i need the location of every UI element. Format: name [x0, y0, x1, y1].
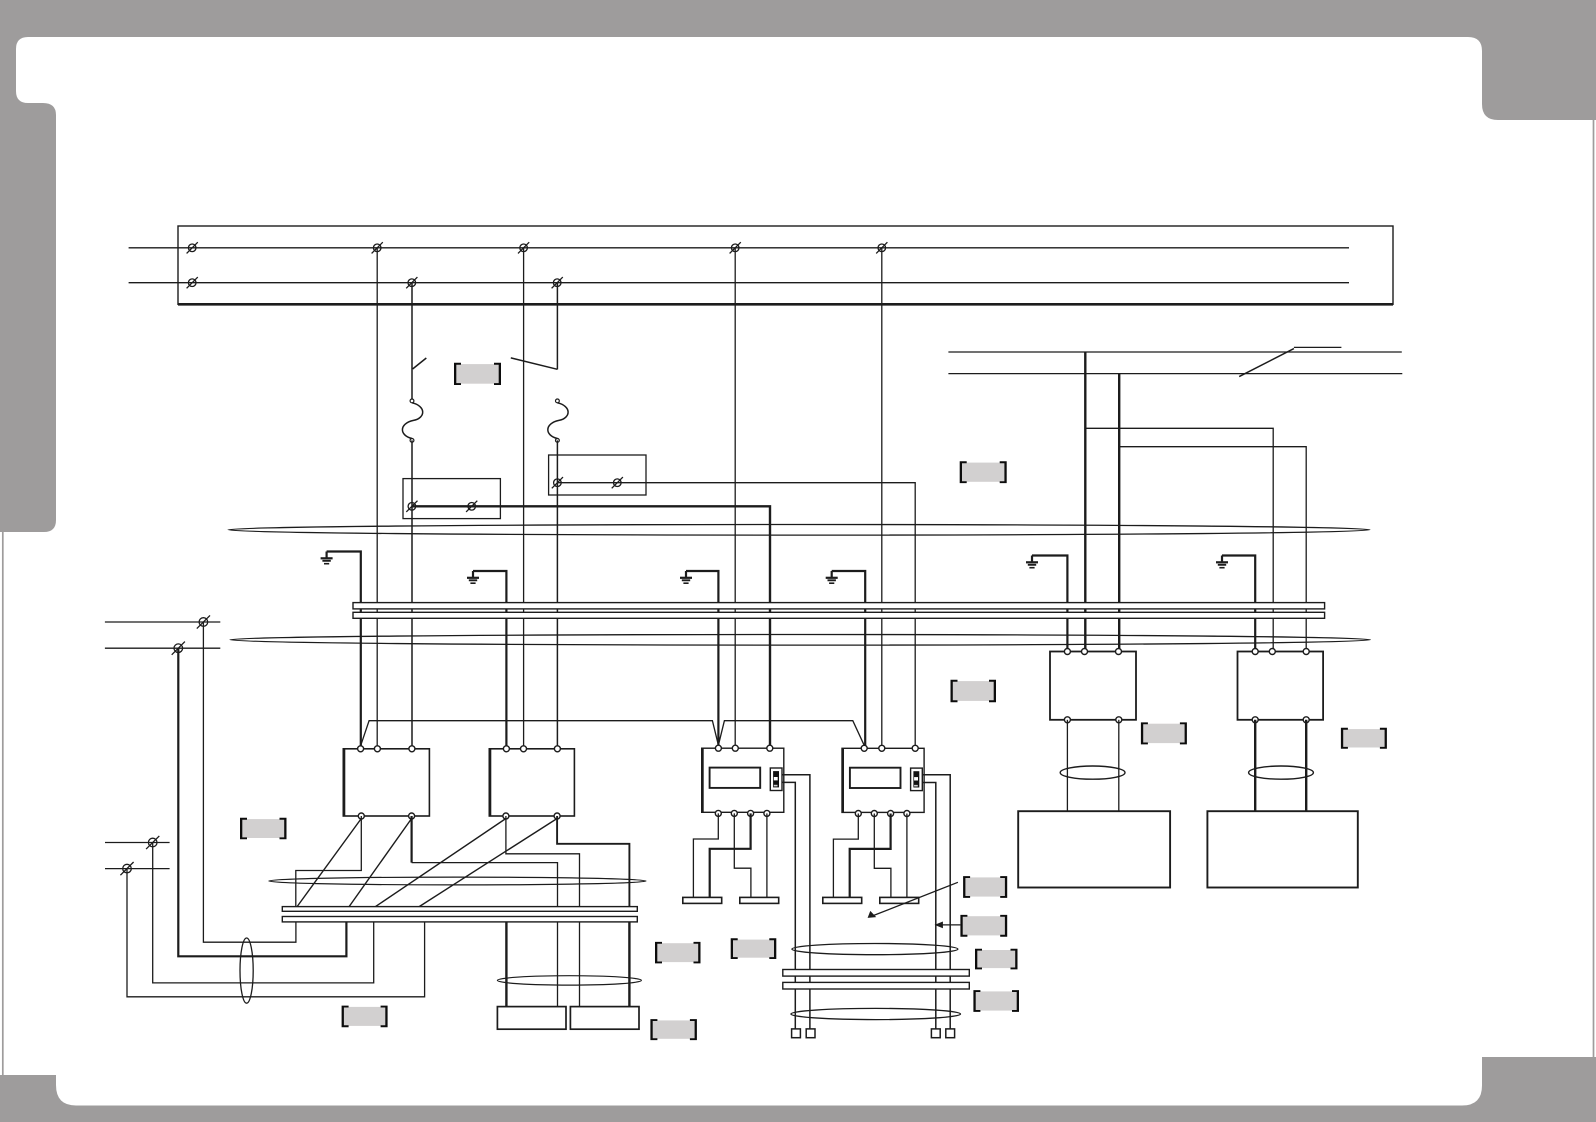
contactor K1 terminals bottom — [358, 813, 364, 819]
output jog K2b — [557, 816, 629, 907]
fuse F1 — [402, 399, 422, 442]
label callout 11 — [731, 938, 777, 959]
module A2 body — [842, 748, 924, 812]
annotation arrow 1 — [868, 882, 958, 918]
heavy feed wire CB1 to module A1 — [412, 506, 770, 748]
feeder wire to contactor K2 coil — [523, 248, 525, 749]
switch blade S3 — [1239, 349, 1294, 377]
ground G3 — [680, 571, 692, 583]
transformer T2 coil — [1249, 766, 1314, 779]
ground wire G4 to module A2 — [832, 571, 866, 748]
breaker box CB2 — [549, 455, 646, 495]
lower bus bar 1 — [282, 907, 637, 912]
module bus bar 1 — [783, 970, 970, 977]
phase tap symbols row2 — [187, 277, 198, 288]
output jog K1a — [296, 816, 362, 907]
stub after S3 — [1294, 346, 1342, 348]
label callout 7 — [963, 876, 1007, 898]
wire lineA to lower bus — [203, 622, 296, 942]
transformer T2 secondary wires — [1254, 720, 1256, 811]
auxiliary line R1 — [948, 351, 1401, 353]
phase symbols in CB1 — [406, 501, 417, 512]
transformer T2 terminals top — [1252, 649, 1258, 655]
phase symbols in CB2 — [552, 477, 563, 488]
main switchboard enclosure — [178, 226, 1393, 304]
speaker feed 3 — [579, 922, 581, 1007]
ground wire G3 to module A1 — [686, 571, 718, 748]
page edge line left — [2, 532, 4, 1075]
chain wire K1-A1-A2 — [361, 721, 865, 746]
incoming feeder stubs left — [129, 247, 178, 249]
module A2 display — [850, 768, 901, 788]
tie wire K2b diagonal — [419, 819, 557, 907]
distribution rail B — [353, 612, 1325, 618]
grey surround top / left tab bar — [0, 0, 1596, 532]
wire lineB to lower bus heavy — [178, 648, 346, 956]
busbar L2 row — [178, 282, 1349, 284]
output jog K1b heavy — [411, 816, 413, 863]
module A2 connector — [911, 768, 923, 791]
transformer T2 terminals bottom — [1252, 717, 1258, 723]
phase symbol line B — [172, 642, 185, 655]
phase symbol line A — [197, 615, 210, 628]
speaker feed 1 heavy — [505, 922, 507, 1007]
contactor K1 — [343, 749, 429, 816]
loom over speaker feeds — [497, 976, 641, 985]
branch wire to transformer T2 mid — [1085, 428, 1273, 651]
wire lineD to lower bus — [127, 869, 425, 997]
module A1 plug wires — [782, 775, 810, 1029]
annotation arrow 2 — [935, 922, 961, 929]
contactor K1 terminals top — [358, 746, 364, 752]
grey surround bottom band — [0, 1057, 1596, 1122]
label callout 3 — [951, 680, 997, 702]
label callout 14 — [650, 1019, 697, 1040]
contactor K2 — [489, 749, 574, 816]
cable loom over contactor outputs — [269, 877, 646, 885]
tie wire K2a diagonal — [376, 819, 506, 907]
input line C — [105, 842, 170, 844]
module A2 foot wires — [833, 814, 858, 898]
module A1 terminals top — [715, 745, 721, 751]
output jog K2a — [506, 816, 580, 907]
speaker feed 2 — [557, 922, 559, 1007]
transformer T1 secondary wires — [1066, 720, 1068, 811]
module A2 terminals bottom — [855, 811, 861, 817]
wire fuse F1 to breaker box — [411, 440, 413, 748]
driver box B1 — [1018, 811, 1170, 887]
ground G2 — [467, 571, 479, 583]
ground wire G2 to contactor K2 — [473, 571, 506, 749]
contactor K2 terminals bottom — [503, 813, 509, 819]
branch wire to transformer T2 right — [1119, 447, 1306, 652]
disconnect switch S2 — [556, 283, 558, 370]
tie wire K1a diagonal — [297, 819, 361, 907]
vertical cable loom — [240, 938, 253, 1003]
disconnect switch S1 — [411, 283, 413, 401]
module A1 connector — [770, 768, 782, 791]
page edge line right — [1593, 120, 1595, 1057]
tie wire K1b diagonal — [349, 819, 412, 907]
label callout 2 — [960, 461, 1007, 483]
loom over module wires lower — [791, 1008, 961, 1019]
auxiliary line R2 — [948, 373, 1402, 375]
module A1 plug ends — [792, 1029, 801, 1038]
ground wire G5 to transformer T1 — [1032, 556, 1067, 652]
module A2 terminals top — [861, 745, 867, 751]
feeder to transformer T1 mid — [1084, 352, 1086, 652]
label callout 4 — [240, 818, 287, 840]
feeder to transformer T1 right — [1118, 374, 1120, 652]
wire fuse F2 down — [556, 440, 558, 748]
feed wire CB2 to module A2 — [557, 483, 915, 749]
phase tap symbols row1 — [187, 242, 198, 253]
transformer T2 body — [1238, 652, 1324, 720]
label callout 10 — [973, 990, 1019, 1012]
module A1 foot wires — [693, 813, 718, 897]
ground G6 — [1216, 556, 1228, 568]
feeder wire to contactor K1 coil — [376, 248, 378, 749]
module A1 terminals bottom — [715, 810, 721, 816]
label callout 8 — [960, 915, 1007, 937]
breaker box CB1 — [403, 479, 500, 519]
input line D — [105, 868, 170, 870]
phase symbol line D — [120, 862, 133, 875]
label callout 6 — [1341, 728, 1387, 749]
phase symbol line C — [146, 836, 159, 849]
cable bundle loom lower — [230, 635, 1370, 646]
busbar L1 row — [178, 247, 1349, 249]
ground G1 — [321, 552, 333, 564]
contactor K2 terminals top — [503, 746, 509, 752]
module A1 body — [702, 748, 784, 812]
module A2 plug wires — [922, 775, 950, 1029]
ground G5 — [1026, 556, 1038, 568]
label callout 1 — [454, 363, 501, 385]
module A1 feet — [683, 897, 722, 903]
driver box B2 — [1207, 811, 1357, 887]
lower bus bar 2 — [282, 917, 637, 922]
loom over module wires upper — [792, 944, 958, 955]
module A2 plug ends — [931, 1029, 940, 1038]
transformer T1 body — [1050, 652, 1136, 720]
wire lineC to lower bus — [153, 843, 374, 983]
ground G4 — [826, 571, 838, 583]
label callout 12 — [655, 942, 701, 964]
label callout 13 — [342, 1006, 388, 1028]
module bus bar 2 — [783, 982, 970, 989]
transformer T1 terminals top — [1064, 649, 1070, 655]
module A2 feet — [823, 897, 862, 903]
speaker box SP1 — [497, 1007, 566, 1030]
module A1 display — [710, 768, 761, 788]
ground wire G6 to transformer T2 — [1222, 556, 1255, 652]
ground wire G1 to contactor K1 — [327, 552, 361, 749]
input line A — [105, 621, 220, 623]
label callout 5 — [1141, 722, 1187, 744]
feeder wire to module A1 — [734, 248, 736, 748]
speaker feed 4 heavy — [628, 922, 630, 1007]
speaker box SP2 — [570, 1007, 639, 1030]
transformer T1 terminals bottom — [1064, 717, 1070, 723]
feeder wire to module A2 — [881, 248, 883, 749]
input line B — [105, 647, 220, 649]
transformer T1 coil — [1060, 766, 1125, 779]
cable bundle loom upper — [228, 525, 1370, 536]
fuse F2 — [548, 399, 568, 442]
label callout 9 — [975, 949, 1018, 970]
distribution rail A — [353, 603, 1325, 609]
